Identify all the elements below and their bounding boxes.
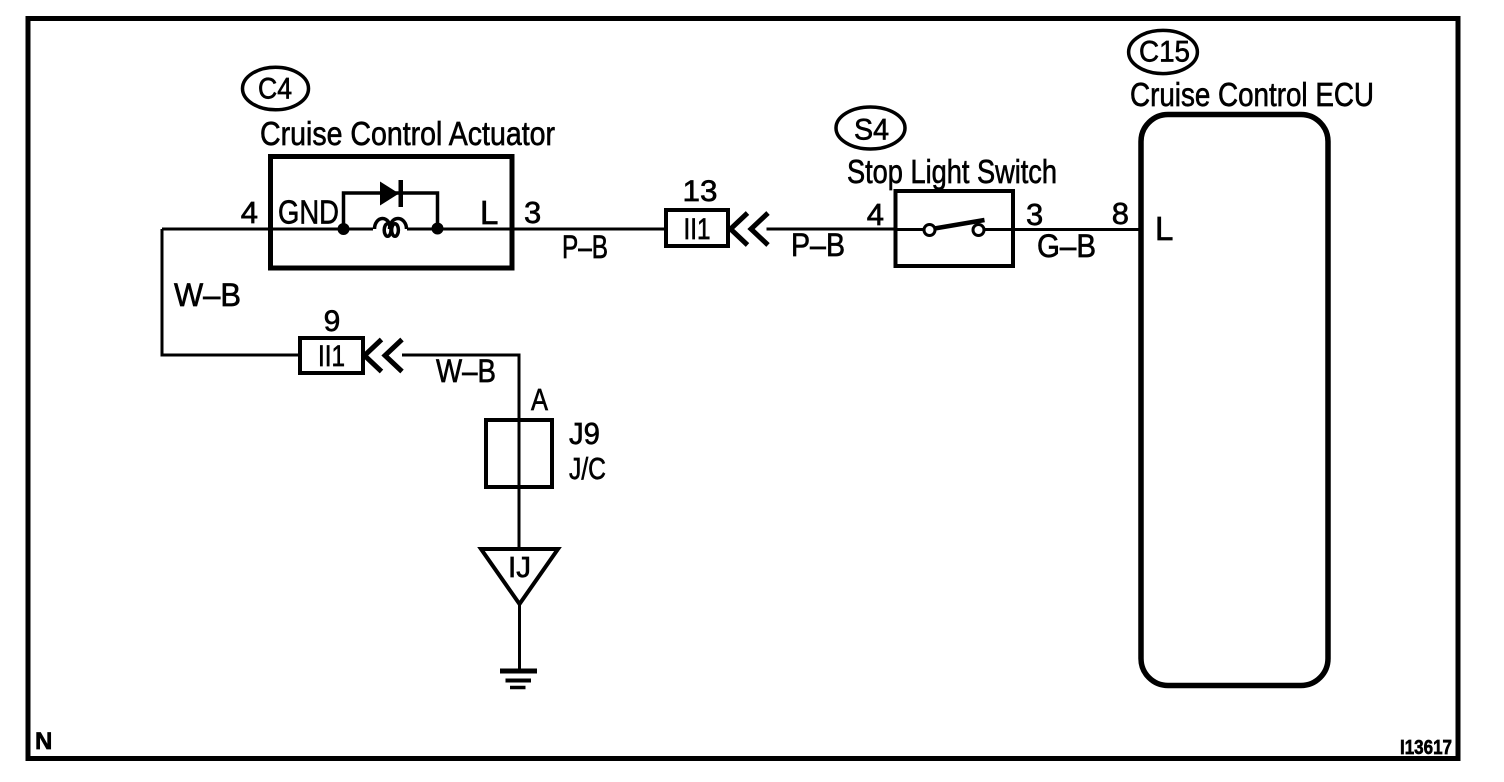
svg-text:S4: S4 [854,114,889,147]
svg-text:C4: C4 [258,73,292,106]
svg-text:IJ: IJ [508,552,531,584]
svg-text:13: 13 [683,175,718,208]
svg-text:8: 8 [1112,196,1129,231]
svg-text:C15: C15 [1139,36,1190,69]
svg-text:L: L [480,194,498,231]
svg-text:Stop Light Switch: Stop Light Switch [847,154,1057,191]
svg-text:L: L [1155,210,1173,247]
svg-text:Cruise Control ECU: Cruise Control ECU [1130,77,1374,114]
svg-text:II1: II1 [684,213,711,246]
svg-text:I13617: I13617 [1400,736,1452,759]
svg-text:3: 3 [1026,197,1043,232]
svg-text:4: 4 [867,197,884,232]
svg-text:Cruise Control Actuator: Cruise Control Actuator [260,116,555,153]
svg-text:P–B: P–B [791,227,845,263]
svg-text:W–B: W–B [436,353,496,389]
svg-text:W–B: W–B [174,277,241,313]
svg-text:P–B: P–B [562,229,608,265]
svg-text:3: 3 [524,195,541,230]
svg-text:4: 4 [241,195,258,230]
svg-text:II1: II1 [318,340,345,373]
svg-text:N: N [35,728,52,755]
svg-text:J9: J9 [569,416,600,451]
svg-text:J/C: J/C [569,451,606,486]
svg-text:A: A [531,382,548,417]
svg-text:G–B: G–B [1037,228,1096,264]
svg-text:9: 9 [324,305,341,338]
svg-text:GND: GND [278,194,339,231]
